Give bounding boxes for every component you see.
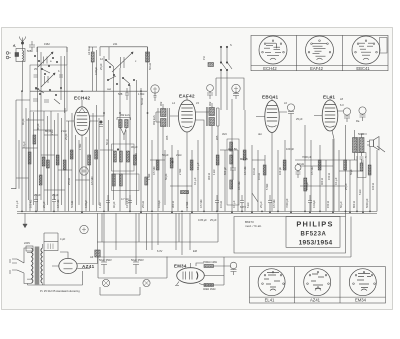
- svg-text:455: 455: [165, 135, 169, 140]
- svg-text:40 pF: 40 pF: [21, 118, 25, 125]
- resistor R20: [216, 155, 219, 165]
- svg-text:452: 452: [159, 101, 163, 106]
- svg-text:4.7 kΩ: 4.7 kΩ: [121, 197, 129, 201]
- svg-text:7000 pF: 7000 pF: [285, 198, 289, 208]
- tube EAF42: [178, 100, 195, 132]
- wire main HT bus double line: [17, 211, 377, 213]
- resistor R10: [56, 155, 59, 165]
- band switch contacts S2: [105, 59, 134, 85]
- svg-text:300 Ω: 300 Ω: [207, 173, 211, 180]
- svg-text:465: 465: [35, 87, 40, 91]
- svg-text:50 kΩ: 50 kΩ: [297, 162, 304, 166]
- svg-text:1953/1954: 1953/1954: [299, 240, 333, 247]
- svg-text:EBC41: EBC41: [262, 94, 278, 99]
- resistor R18: [170, 158, 173, 168]
- svg-text:5000: 5000: [358, 132, 364, 136]
- svg-text:50 kΩ: 50 kΩ: [148, 63, 152, 70]
- svg-text:EM34: EM34: [355, 297, 367, 302]
- measurement point M4: [287, 104, 294, 118]
- svg-text:528: 528: [118, 92, 123, 96]
- tube EL41: [322, 100, 338, 131]
- svg-text:6373: 6373: [240, 205, 246, 209]
- svg-text:0.02μF: 0.02μF: [157, 199, 161, 208]
- enclosure pickup: [216, 78, 244, 110]
- svg-text:4 μF: 4 μF: [60, 237, 66, 241]
- resistor R7: [42, 157, 45, 166]
- svg-text:100 pF: 100 pF: [278, 167, 282, 175]
- resistor R16b: [127, 151, 130, 162]
- wire group EM34 connections: [196, 257, 231, 285]
- resistor R4: [208, 63, 214, 67]
- svg-text:PHILIPS: PHILIPS: [296, 220, 333, 229]
- resistor R26: [368, 165, 371, 175]
- svg-text:800 Ω: 800 Ω: [352, 201, 356, 208]
- svg-text:S: S: [230, 43, 232, 47]
- resistor R30: [181, 191, 189, 194]
- svg-text:50 kΩ: 50 kΩ: [70, 201, 74, 208]
- antenna coil L1: [13, 44, 25, 91]
- svg-text:5 kΩ: 5 kΩ: [358, 190, 362, 195]
- resistor R15b: [145, 177, 148, 185]
- rectifier tube AZ41: [52, 252, 98, 274]
- svg-text:30 pF: 30 pF: [131, 145, 138, 149]
- svg-text:25 pF: 25 pF: [34, 193, 41, 197]
- measurement point M7: [230, 262, 237, 275]
- measurement point B5: [80, 225, 88, 233]
- svg-text:0.1 μF: 0.1 μF: [193, 177, 197, 185]
- svg-text:EM: EM: [193, 249, 197, 253]
- resistor R3b: [91, 52, 94, 62]
- mains plug: [10, 259, 24, 274]
- resistor R24: [318, 160, 321, 170]
- svg-text:ECH42: ECH42: [74, 96, 90, 101]
- fuse F1: [26, 246, 33, 251]
- svg-text:AVC 50: AVC 50: [228, 147, 237, 151]
- svg-text:AZ41: AZ41: [310, 297, 321, 302]
- wire group horizontal connectors: [100, 150, 363, 186]
- svg-text:AF 1kΩ: AF 1kΩ: [87, 46, 91, 55]
- svg-text:0.5 MΩ: 0.5 MΩ: [237, 182, 241, 190]
- svg-text:10 kΩ: 10 kΩ: [257, 173, 261, 180]
- svg-text:0.05μF: 0.05μF: [94, 66, 98, 75]
- wire group left horizontals: [16, 100, 90, 190]
- wire group left vertical field: [11, 91, 99, 211]
- magic eye EM34: [175, 263, 204, 286]
- bottom sockets box: [250, 267, 386, 303]
- aerial terminals: [6, 52, 11, 59]
- resistor R19: [190, 160, 193, 170]
- svg-text:0.5 MΩ: 0.5 MΩ: [90, 177, 94, 185]
- svg-text:2 kΩ: 2 kΩ: [61, 129, 66, 133]
- svg-text:700kΩ 1MΩ: 700kΩ 1MΩ: [203, 260, 217, 264]
- svg-text:25 pF: 25 pF: [99, 63, 103, 70]
- svg-text:osc: osc: [107, 88, 112, 91]
- svg-text:6.3V: 6.3V: [157, 249, 163, 253]
- resistor R15: [114, 151, 117, 162]
- capacitor C6: [34, 194, 38, 211]
- resistor R3: [146, 52, 150, 62]
- svg-text:EL41: EL41: [323, 94, 335, 99]
- wire group EAF42 connections: [170, 96, 209, 211]
- resistor R16c: [134, 155, 137, 165]
- divider enclosure A: [112, 144, 135, 171]
- svg-text:50 μF: 50 μF: [339, 201, 343, 208]
- svg-text:20 kΩ: 20 kΩ: [134, 153, 138, 160]
- top sockets box: [251, 35, 388, 70]
- top box side rect: [380, 38, 388, 54]
- svg-text:100 kΩ: 100 kΩ: [29, 200, 33, 208]
- tuning capacitor C2: [38, 52, 53, 67]
- capacitor C1: [29, 41, 35, 52]
- resistor R16d: [113, 174, 116, 186]
- wire group antenna section verticals: [38, 47, 68, 113]
- wire hum line: [97, 256, 351, 258]
- resistor R9: [47, 160, 50, 168]
- svg-text:400 Ω: 400 Ω: [320, 178, 324, 185]
- title block PHILIPS box: [286, 217, 340, 248]
- resistor R13: [88, 155, 91, 165]
- svg-text:1962: 1962: [44, 42, 50, 46]
- measurement point M1: [151, 85, 159, 101]
- svg-text:452: 452: [208, 101, 212, 106]
- svg-text:25 pF: 25 pF: [42, 201, 46, 208]
- wire HT feed: [97, 213, 99, 263]
- svg-text:PU: PU: [202, 56, 206, 60]
- tube EBC41: [265, 101, 279, 133]
- pickup switch S3: [220, 46, 232, 78]
- svg-text:10 kΩ: 10 kΩ: [219, 201, 223, 208]
- capacitor C13: [308, 195, 312, 211]
- svg-text:7000 pF: 7000 pF: [302, 155, 312, 159]
- oscillator coil L2: [117, 118, 131, 141]
- svg-text:0.5 MΩ: 0.5 MΩ: [199, 200, 203, 208]
- resistor R8: [39, 175, 42, 185]
- socket EM34 bottom view: [349, 269, 376, 296]
- resistor R23: [283, 160, 286, 170]
- svg-text:0.1 μF: 0.1 μF: [125, 200, 129, 208]
- svg-text:452 kc/s: 452 kc/s: [120, 113, 130, 117]
- svg-text:1 MΩ: 1 MΩ: [147, 174, 151, 180]
- svg-text:10 kΩ: 10 kΩ: [252, 168, 256, 175]
- osc box texture marks: [33, 55, 63, 104]
- svg-text:0.1 μF: 0.1 μF: [334, 177, 338, 185]
- resistor R14: [95, 150, 98, 159]
- resistor R28: [204, 284, 214, 287]
- svg-text:0.5 MΩ: 0.5 MΩ: [310, 167, 314, 175]
- svg-text:40kΩ 1MΩ: 40kΩ 1MΩ: [203, 287, 215, 291]
- bracket 1962: [37, 47, 67, 52]
- bracket 241: [100, 47, 148, 56]
- IF transformer T2: [206, 103, 219, 140]
- detector chain box: [227, 139, 239, 205]
- capacitor C14: [44, 242, 58, 251]
- svg-text:0.1 μF: 0.1 μF: [196, 162, 200, 170]
- svg-text:mod. / % alt.: mod. / % alt.: [245, 224, 262, 228]
- svg-text:0.5 MΩ: 0.5 MΩ: [243, 167, 247, 175]
- wire heater bus: [97, 213, 218, 242]
- junction dots on bus: [21, 90, 371, 213]
- svg-text:EM34: EM34: [174, 264, 187, 269]
- svg-text:EBC41: EBC41: [356, 66, 370, 71]
- svg-text:25 μF: 25 μF: [344, 183, 348, 190]
- svg-text:AZ41: AZ41: [82, 264, 95, 269]
- tone network box: [358, 153, 367, 178]
- resistor R25: [344, 160, 347, 170]
- svg-text:300 Ω: 300 Ω: [171, 201, 175, 208]
- svg-text:1 kΩ: 1 kΩ: [98, 203, 102, 208]
- svg-text:25 pF: 25 pF: [296, 117, 303, 121]
- wire group oscillator verticals: [104, 47, 148, 213]
- svg-text:EAF42: EAF42: [179, 94, 195, 99]
- oscillator padder C5: [125, 88, 129, 100]
- svg-text:25 kΩ: 25 kΩ: [67, 178, 71, 185]
- measurement point M3: [207, 85, 214, 99]
- svg-text:2 kΩ: 2 kΩ: [50, 130, 54, 135]
- socket AZ41 bottom view: [304, 269, 331, 296]
- tuning capacitor C4: [112, 52, 133, 72]
- capacitor C9: [128, 195, 132, 211]
- resistor R29: [304, 178, 307, 191]
- svg-text:452 kc/s: 452 kc/s: [152, 115, 156, 125]
- resistor R21: [243, 150, 246, 160]
- svg-text:50 pF: 50 pF: [162, 153, 169, 157]
- svg-text:2 MΩ: 2 MΩ: [178, 169, 182, 175]
- svg-text:25 kΩ: 25 kΩ: [141, 201, 145, 208]
- svg-text:1 MΩ: 1 MΩ: [138, 92, 144, 96]
- divider enclosure B: [112, 174, 140, 191]
- capacitor C7: [52, 194, 56, 211]
- svg-text:ECH42: ECH42: [263, 66, 277, 71]
- svg-text:50μF 350V: 50μF 350V: [99, 258, 112, 262]
- svg-text:0.5 MΩ: 0.5 MΩ: [272, 200, 276, 208]
- capacitor C15: [99, 121, 103, 127]
- svg-text:0.05 μF: 0.05 μF: [198, 218, 207, 222]
- svg-text:80 pF: 80 pF: [36, 123, 40, 130]
- output transformer T3: [353, 130, 368, 160]
- svg-text:40 pF: 40 pF: [112, 201, 116, 208]
- svg-text:AVC: AVC: [222, 132, 227, 136]
- svg-text:50μF: 50μF: [349, 169, 353, 175]
- svg-text:50 kΩ: 50 kΩ: [140, 98, 144, 105]
- measurement point M5: [343, 108, 350, 122]
- oscillator coil box: [30, 65, 67, 111]
- svg-text:150 Ω: 150 Ω: [326, 201, 330, 208]
- svg-text:AZ: AZ: [90, 255, 94, 259]
- capacitor C10: [215, 195, 219, 211]
- measurement point M8: [295, 165, 301, 179]
- svg-text:100 Ω: 100 Ω: [371, 183, 375, 190]
- socket EL41 bottom view: [258, 269, 285, 296]
- svg-text:0.05μF: 0.05μF: [84, 199, 88, 208]
- wire AVC line: [30, 90, 147, 92]
- wire group R3b: [89, 47, 97, 91]
- svg-text:50μF 350V: 50μF 350V: [131, 258, 144, 262]
- resistor R5: [33, 135, 36, 144]
- resistor R6: [28, 152, 31, 164]
- value label group: [15, 42, 375, 293]
- wire group ECH42 connections: [66, 100, 104, 211]
- svg-text:0.5 MΩ: 0.5 MΩ: [56, 200, 60, 208]
- resistor R12: [70, 150, 73, 159]
- resistor R17: [156, 160, 159, 170]
- svg-text:150 Ω: 150 Ω: [327, 173, 331, 180]
- svg-text:1 MΩ: 1 MΩ: [78, 144, 82, 150]
- svg-text:50 pF: 50 pF: [164, 173, 168, 180]
- capacitor C8: [106, 195, 110, 211]
- capacitor C11: [240, 195, 244, 211]
- wire group EBC41 connections: [256, 96, 287, 211]
- svg-text:det: det: [258, 132, 262, 136]
- svg-text:455: 455: [215, 135, 219, 140]
- IF transformer T1: [156, 104, 169, 211]
- resistor R27: [204, 265, 214, 268]
- svg-text:25 pF: 25 pF: [210, 218, 217, 222]
- svg-text:5 kΩ: 5 kΩ: [246, 203, 250, 208]
- svg-text:2 kΩ: 2 kΩ: [176, 153, 181, 157]
- svg-text:500 pF: 500 pF: [223, 167, 227, 175]
- svg-text:25 pF: 25 pF: [52, 193, 59, 197]
- ground chassis: [23, 213, 27, 227]
- wire group EL41 connections: [314, 96, 343, 211]
- band switch contacts S1: [41, 65, 50, 74]
- socket ECH42 top view: [259, 36, 287, 64]
- svg-text:Pt. 25 312 05 standaard uitvoe: Pt. 25 312 05 standaard uitvoering: [40, 289, 80, 293]
- socket EAF42 top view: [306, 36, 334, 64]
- loudspeaker LS1: [367, 137, 379, 151]
- svg-text:EL41: EL41: [265, 297, 275, 302]
- capacitor C12: [268, 195, 272, 211]
- svg-text:EAF42: EAF42: [310, 66, 323, 71]
- tone switch: [252, 146, 385, 202]
- resistor R16e: [120, 174, 123, 186]
- svg-text:0.1 μF: 0.1 μF: [15, 200, 19, 208]
- electrolytic block: [98, 213, 167, 278]
- resistor R22: [263, 165, 266, 175]
- dial lamp LA2: [143, 279, 150, 286]
- svg-text:100 pF: 100 pF: [286, 147, 294, 151]
- svg-text:5000 pF: 5000 pF: [365, 198, 369, 208]
- tube ECH42: [74, 107, 90, 135]
- svg-text:508: 508: [27, 49, 32, 53]
- measurement point M6: [359, 107, 366, 121]
- antenna: [20, 37, 26, 45]
- socket EBC41 top view: [352, 36, 380, 64]
- resistor R11: [63, 160, 66, 170]
- wire group heater line: [100, 213, 190, 295]
- wire group right vertical field: [305, 125, 377, 217]
- measurement point M2: [232, 84, 240, 99]
- svg-text:6.3: 6.3: [340, 103, 344, 107]
- svg-text:0.02μF: 0.02μF: [312, 199, 316, 208]
- svg-text:2 MΩ: 2 MΩ: [185, 202, 189, 208]
- svg-text:0.1μF: 0.1μF: [22, 141, 26, 148]
- resistor R16: [120, 151, 123, 162]
- svg-text:MΩ 25: MΩ 25: [240, 157, 248, 161]
- wire group power section: [28, 233, 83, 285]
- svg-text:0.02μF: 0.02μF: [305, 181, 309, 190]
- power transformer T4: [24, 244, 42, 285]
- svg-text:220V: 220V: [24, 241, 30, 245]
- junction: [117, 148, 119, 150]
- svg-text:Ra: Ra: [356, 119, 360, 123]
- title block outer: [234, 217, 346, 254]
- title block line: [350, 217, 352, 258]
- svg-text:241: 241: [113, 42, 118, 46]
- svg-text:0.5 MΩ: 0.5 MΩ: [152, 167, 156, 175]
- svg-text:1 kΩ: 1 kΩ: [212, 170, 216, 175]
- svg-text:BF523A: BF523A: [301, 232, 327, 238]
- svg-text:50 Ω: 50 Ω: [105, 139, 109, 145]
- svg-text:25 μF: 25 μF: [259, 201, 263, 208]
- dial lamp LA1: [102, 279, 109, 286]
- wire group mid vertical field: [104, 99, 291, 211]
- measurement point B4: [80, 167, 88, 175]
- resistor R31: [95, 250, 100, 257]
- svg-text:5 MΩ: 5 MΩ: [265, 184, 269, 190]
- svg-text:25 pF: 25 pF: [64, 133, 68, 140]
- svg-text:0.1 μF: 0.1 μF: [232, 200, 236, 208]
- tuning capacitor C3: [41, 73, 55, 87]
